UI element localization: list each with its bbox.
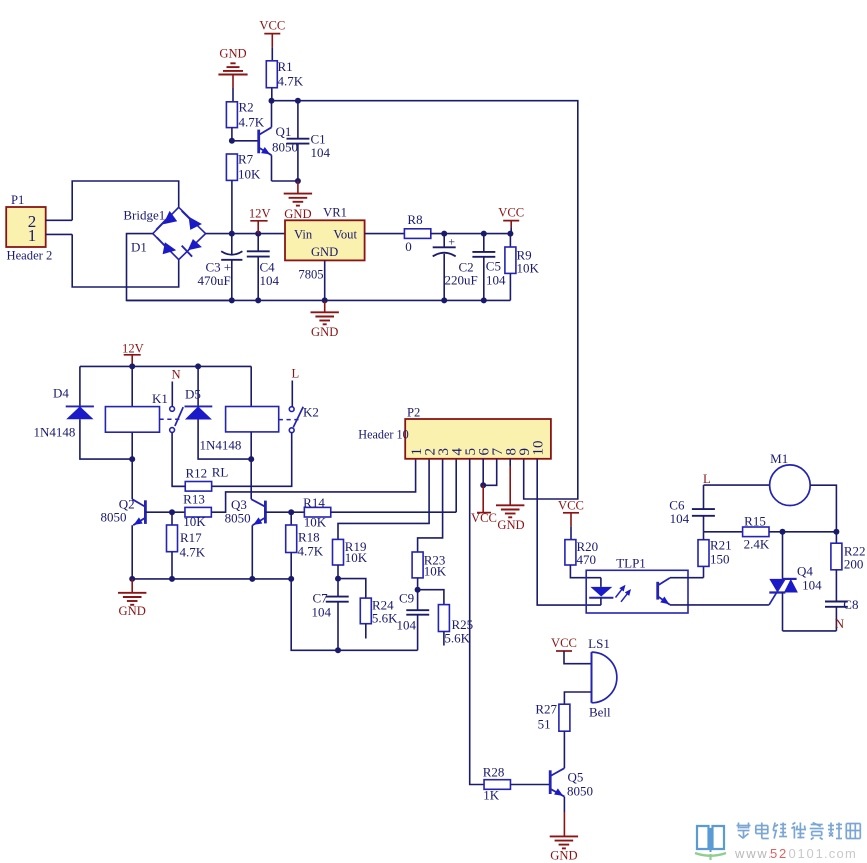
svg-text:R7: R7 [238,152,254,167]
svg-text:D5: D5 [185,387,201,402]
svg-text:LS1: LS1 [588,636,610,651]
svg-text:C5: C5 [486,259,501,274]
svg-text:VCC: VCC [259,19,285,33]
svg-text:C9: C9 [399,591,414,606]
svg-text:R14: R14 [303,495,325,510]
svg-text:www.: www. [734,846,773,861]
svg-text:5.6K: 5.6K [372,611,398,626]
svg-text:Bell: Bell [589,704,611,719]
svg-text:1N4148: 1N4148 [34,425,76,440]
svg-text:4.7K: 4.7K [239,115,265,130]
svg-text:1: 1 [28,226,37,245]
svg-text:8050: 8050 [101,510,127,525]
svg-text:104: 104 [486,273,506,288]
svg-text:R1: R1 [278,59,293,74]
svg-text:VR1: VR1 [323,206,347,220]
svg-text:4.7K: 4.7K [298,544,324,559]
svg-text:10: 10 [531,441,547,456]
svg-text:Q4: Q4 [797,564,813,579]
svg-text:VCC: VCC [551,636,577,650]
svg-text:10K: 10K [345,550,368,565]
svg-text:Q5: Q5 [568,770,584,785]
svg-text:R12: R12 [186,466,208,481]
svg-text:D4: D4 [53,386,69,401]
svg-text:104: 104 [802,577,822,592]
svg-text:GND: GND [219,47,246,61]
svg-text:R21: R21 [710,538,732,553]
svg-text:104: 104 [260,273,280,288]
svg-text:Q1: Q1 [276,124,292,139]
svg-text:8050: 8050 [567,784,593,799]
svg-text:220uF: 220uF [445,273,478,288]
svg-text:10K: 10K [238,167,261,182]
svg-text:VCC: VCC [471,511,497,525]
svg-text:5.6K: 5.6K [444,631,470,646]
svg-text:Vout: Vout [333,228,357,242]
svg-text:L: L [703,472,711,486]
svg-text:D1: D1 [131,240,147,255]
svg-text:0101: 0101 [789,846,825,861]
svg-text:P1: P1 [11,193,24,207]
svg-text:4.7K: 4.7K [278,74,304,89]
svg-text:7805: 7805 [298,268,323,282]
svg-text:VCC: VCC [558,499,584,513]
svg-text:470uF: 470uF [198,273,231,288]
svg-text:Header 10: Header 10 [358,428,408,442]
svg-text:51: 51 [538,717,551,732]
svg-text:C8: C8 [843,597,858,612]
svg-text:L: L [292,367,300,381]
svg-text:200: 200 [844,557,864,572]
svg-text:12V: 12V [122,342,144,356]
svg-text:12V: 12V [249,207,271,221]
svg-text:R28: R28 [483,765,505,780]
svg-text:8050: 8050 [272,140,298,155]
svg-text:8050: 8050 [225,511,251,526]
svg-text:K2: K2 [303,405,319,420]
svg-text:104: 104 [312,605,332,620]
svg-text:104: 104 [397,618,417,633]
svg-text:N: N [835,617,844,631]
svg-text:R8: R8 [407,212,422,227]
svg-text:GND: GND [119,604,146,618]
svg-text:VCC: VCC [498,206,524,220]
svg-text:10K: 10K [517,261,540,276]
svg-text:R2: R2 [239,100,254,115]
svg-text:C7: C7 [313,591,329,606]
svg-text:RL: RL [212,465,229,480]
svg-text:Vin: Vin [294,228,313,242]
svg-text:10K: 10K [183,514,206,529]
svg-text:0: 0 [405,239,412,254]
svg-text:4.7K: 4.7K [180,545,206,560]
svg-text:R15: R15 [744,514,766,529]
svg-text:R18: R18 [298,530,320,545]
svg-text:R17: R17 [180,530,202,545]
svg-text:GND: GND [311,325,338,339]
svg-text:52: 52 [770,846,788,861]
svg-text:R13: R13 [183,492,205,507]
svg-text:470: 470 [577,552,597,567]
svg-text:1N4148: 1N4148 [200,438,242,453]
svg-text:2.4K: 2.4K [744,537,770,552]
svg-text:104: 104 [670,511,690,526]
svg-text:N: N [171,368,180,382]
svg-text:P2: P2 [407,406,420,420]
svg-text:K1: K1 [152,391,168,406]
svg-text:GND: GND [550,849,577,863]
svg-text:Header 2: Header 2 [7,249,53,263]
svg-text:150: 150 [710,552,730,567]
svg-text:R27: R27 [535,702,557,717]
svg-text:10K: 10K [304,515,327,530]
svg-text:TLP1: TLP1 [616,556,646,571]
svg-text:GND: GND [497,518,524,532]
svg-text:Bridge1: Bridge1 [123,208,165,223]
svg-text:GND: GND [284,207,311,221]
svg-text:1K: 1K [483,788,500,803]
svg-text:.com: .com [824,846,857,861]
svg-text:104: 104 [311,145,331,160]
svg-text:10K: 10K [424,564,447,579]
svg-text:GND: GND [311,245,338,259]
svg-text:M1: M1 [770,451,788,466]
